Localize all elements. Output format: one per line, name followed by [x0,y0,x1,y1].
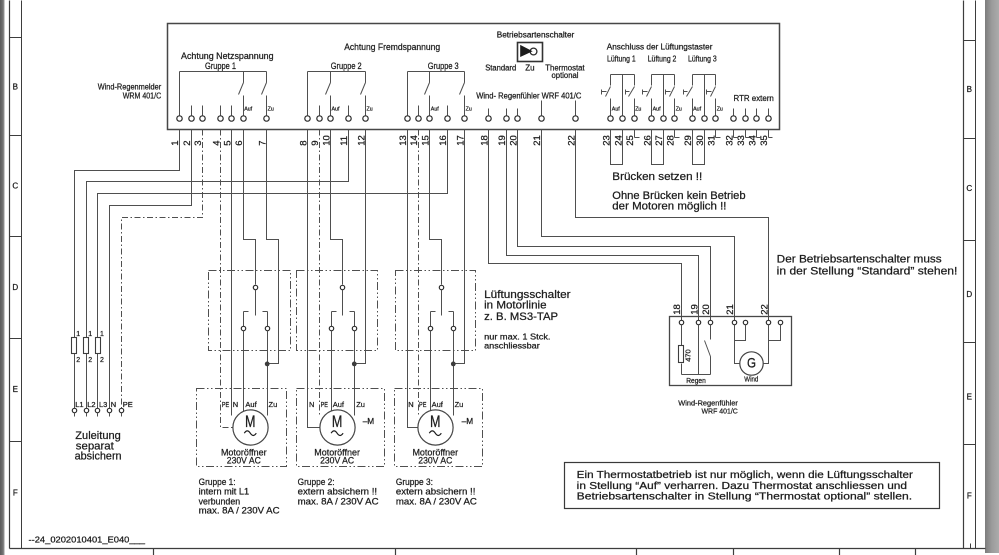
ventilation button group 2 (terminals 26-28) [643,75,675,116]
motor box 1 outline [197,389,287,467]
svg-text:N: N [111,400,116,409]
wire switch 2 Auf contact to motor 2 [331,331,333,412]
ventilation switch S3 pole [439,285,443,315]
svg-text:Zu: Zu [525,63,534,72]
label Auf terminal 10 [332,107,340,113]
svg-text:2: 2 [76,357,80,364]
svg-text:Ein Thermostatbetrieb ist nur: Ein Thermostatbetrieb ist nur möglich, w… [577,470,914,481]
wire terminal 19 to sensor box [507,130,699,321]
wire terminal 3 to PE feeder [122,130,203,409]
svg-text:extern absichern !!: extern absichern !! [298,487,378,497]
note Der Betriebsartenschalter muss in der Stellung Standard stehen [777,253,958,277]
svg-text:20: 20 [701,304,712,315]
note Bruecken setzen [612,171,702,183]
wire terminal 13 N to motor 3 [408,130,418,428]
junction dot group 3 Zu [451,362,456,367]
wire terminal 16 to L3 feeder [98,130,448,409]
svg-text:Wind-Regenmelder: Wind-Regenmelder [98,83,162,92]
motor M3 circle [418,410,453,445]
wire terminal 11 to L2 feeder [87,130,349,409]
svg-text:in Stellung “Auf” verharren. D: in Stellung “Auf” verharren. Dazu Thermo… [577,481,907,492]
svg-text:C: C [966,184,972,193]
stub wires terminals 18-20 [489,109,518,116]
label Wind [744,375,758,384]
note Lueftungsschalter in Motorlinie z.B. MS3-TAP [484,289,571,323]
svg-text:z. B. MS3-TAP: z. B. MS3-TAP [484,311,558,323]
svg-text:Wind: Wind [744,375,758,384]
svg-text:anschliessbar: anschliessbar [484,341,540,351]
svg-text:Gruppe 1: Gruppe 1 [205,61,236,71]
svg-text:230V AC: 230V AC [418,456,452,467]
svg-text:Zu: Zu [455,400,464,409]
svg-text:22: 22 [759,304,770,315]
svg-text:2: 2 [88,357,92,364]
svg-text:Achtung Fremdspannung: Achtung Fremdspannung [344,42,440,52]
wire terminal 6 Auf to switch pole 1 [244,130,256,285]
svg-text:Gruppe 3: Gruppe 3 [428,61,459,71]
label Auf terminal 23 [612,107,620,113]
label Motoroeffner 230V AC motor 2 [314,447,360,466]
svg-text:D: D [12,283,18,292]
mode selector switch icon [518,43,543,62]
ventilation switch S1 contact Zu [263,312,270,331]
label Regen [686,376,706,385]
wire terminal 18 to sensor box [489,130,682,321]
stub wires terminals 32-35 [734,109,769,116]
svg-text:230V AC: 230V AC [227,456,261,467]
svg-text:Lüftung 1: Lüftung 1 [607,54,636,63]
svg-text:der Motoren möglich !!: der Motoren möglich !! [612,201,726,213]
jumper sensor terminal pair right [769,325,781,341]
svg-text:2: 2 [100,357,104,364]
label RTR extern [734,94,774,103]
bridge jumper terminals 26-27 [652,130,664,165]
labels L1 L2 L3 N PE [75,400,133,409]
wire switch 3 Auf contact to motor 3 [430,331,432,412]
wire switch 1 Auf contact to motor 1 [243,331,245,412]
terminal labels motor 2 [309,400,365,409]
svg-text:Zu: Zu [268,107,274,113]
ventilation button group 3 (terminals 29-31) [684,75,716,116]
svg-text:PE: PE [222,400,229,409]
label Zu terminal 28 [676,107,682,113]
wire terminal 9 PE to motor 2 [319,130,321,416]
wire terminal 1 to L1 feeder [75,130,180,409]
wire terminal 20 to sensor box [518,130,711,321]
wire switch 2 Zu contact to motor 2 [354,331,356,416]
svg-text:Lüftung 3: Lüftung 3 [688,54,717,63]
bridge jumper terminals 29-30 [693,130,705,165]
ventilation button group 1 (terminals 23-25) [602,75,635,116]
note Zuleitung separat absichern [75,430,122,463]
wire sensor 22 to generator [764,325,769,364]
motor box 3 outline [395,389,483,467]
junction dot group 1 Zu [265,362,270,367]
svg-text:G: G [747,355,756,371]
note Gruppe 2 extern absichern max 8A 230V AC [298,477,380,506]
svg-text:M: M [430,413,441,431]
label Achtung Netzspannung [181,51,274,61]
svg-text:in Motorlinie: in Motorlinie [484,300,546,312]
svg-text:WRF 401/C: WRF 401/C [702,406,739,415]
svg-text:E: E [967,393,972,402]
label Zu terminal 12 [367,107,373,113]
fuse F3 on L3 [96,331,105,364]
motor M2 circle [320,410,355,445]
svg-text:Auf: Auf [333,400,345,409]
svg-text:Anschluss der Lüftungstaster: Anschluss der Lüftungstaster [607,43,713,52]
rain switch contact [705,325,711,375]
label Zu terminal 17 [466,107,472,113]
ventilation switch S2 pole [340,285,344,315]
note Ohne Bruecken kein Betrieb der Motoren moeglich [612,190,745,212]
svg-text:max. 8A / 230V AC: max. 8A / 230V AC [396,496,478,506]
svg-text:E: E [13,385,18,394]
svg-text:D: D [966,290,972,299]
label Zu terminal 25 [635,107,641,113]
svg-text:PE: PE [321,400,328,409]
ventilation switch S1 pole [253,285,257,315]
svg-text:19: 19 [690,304,701,315]
svg-text:B: B [13,83,18,92]
wire switch 3 Zu contact to motor 3 [453,331,455,416]
open stub terminals 32-35 [734,130,773,138]
svg-text:WRM 401/C: WRM 401/C [123,91,162,100]
label Auf terminal 29 [693,107,701,113]
drawing number label [29,535,146,545]
open stub terminal 28 [675,130,680,138]
wind generator G [740,352,763,375]
svg-text:Auf: Auf [653,107,661,113]
svg-text:1: 1 [88,331,92,338]
svg-text:N: N [408,400,413,409]
stub wires terminals 21-22 [542,101,576,116]
label Anschluss der Lueftungstaster [607,43,713,52]
row letters right [966,85,972,501]
label Auf terminal 15 [431,107,439,113]
svg-text:L2: L2 [87,400,95,409]
sheet frame right strip [985,0,999,553]
svg-text:Zu: Zu [367,107,373,113]
terminal circles 1-35 [177,116,771,121]
label Lueftung 1 [607,54,636,63]
svg-text:M: M [245,413,256,431]
label Achtung Fremdspannung [344,42,440,52]
wire terminal 10 Auf to switch pole 2 [331,130,343,285]
label Zu terminal 7 [268,107,274,113]
terminal labels motor 3 [408,400,463,409]
wire terminal 15 Auf to switch pole 3 [430,130,442,285]
row letters left [12,83,18,498]
motor M1 circle [233,410,268,445]
svg-text:PE: PE [123,400,133,409]
wire sensor terminal 19 down [698,325,700,375]
svg-text:Zu: Zu [635,107,641,113]
sensor WRF 401/C box outline [670,317,792,386]
svg-text:N: N [309,400,314,409]
svg-text:Lüftung 2: Lüftung 2 [648,54,677,63]
svg-text:optional: optional [552,71,579,80]
label Gruppe 1 [205,61,236,71]
rain common rail [682,374,711,376]
svg-text:F: F [967,492,972,501]
feeder terminals L1 L2 L3 N PE [72,408,123,416]
resistor 470 ohm [679,325,684,375]
svg-text:Gruppe 2: Gruppe 2 [331,61,362,71]
svg-text:absichern: absichern [75,451,122,463]
label Zu terminal 31 [717,107,723,113]
open stub terminal 31 [716,130,721,138]
svg-text:intern mit L1: intern mit L1 [199,487,250,497]
label Wind-Regenmelder WRM 401/C [98,83,162,101]
label Motoroeffner 230V AC motor 1 [221,447,267,466]
svg-text:Auf: Auf [245,400,257,409]
svg-text:Standard: Standard [485,63,516,72]
svg-text:Wind- Regenfühler WRF 401/C: Wind- Regenfühler WRF 401/C [476,91,581,100]
svg-text:max. 8A / 230V AC: max. 8A / 230V AC [298,496,380,506]
svg-text:–M: –M [363,416,375,426]
row reference ticks left [10,38,22,442]
wire switch 1 Zu contact to motor 1 [267,331,269,416]
wire terminal 5 N to motor 1 [231,130,233,416]
svg-text:PE: PE [419,400,426,409]
note Gruppe 3 extern absichern max 8A 230V AC [396,477,478,506]
svg-text:23: 23 [602,135,613,146]
label Motoroeffner 230V AC motor 3 [412,447,458,466]
label Betriebsartenschalter [497,31,575,40]
label Zu mode [525,63,534,72]
svg-text:Auf: Auf [432,400,444,409]
ventilation switch S2 contact Zu [350,312,357,331]
ventilation switch S1 contact Auf [241,312,248,331]
jumper sensor terminal pair left [735,325,746,341]
svg-text:Betriebsartenschalter in Stell: Betriebsartenschalter in Stellung “Therm… [577,492,912,503]
note box Ein Thermostatbetrieb [565,463,940,509]
wire terminal 21 to sensor box [542,130,735,321]
ventilation switch box 1 outline [209,271,291,351]
label Lueftung 3 [688,54,717,63]
svg-text:F: F [13,489,18,498]
motor box 2 outline [297,389,385,467]
wire sensor 21 to generator [735,325,740,364]
svg-text:RTR extern: RTR extern [734,94,774,103]
open stub terminal 25 [635,130,640,138]
group 3 supply bracket with switches (terminals 13-17) [408,72,465,116]
svg-text:–M: –M [462,416,474,426]
label Gruppe 2 [331,61,362,71]
svg-text:Auf: Auf [693,107,701,113]
label Wind- Regenfuehler WRF 401/C [476,91,581,100]
label -M motor 3 [462,416,474,426]
svg-text:Auf: Auf [244,107,252,113]
label Lueftung 2 [648,54,677,63]
svg-text:15: 15 [421,135,432,146]
bridge jumper terminals 23-24 [611,130,623,165]
svg-text:Zu: Zu [676,107,682,113]
label -M motor 2 [363,416,375,426]
svg-text:N: N [233,400,238,409]
label Standard [485,63,516,72]
note nur max. 1 Stck. anschliessbar [484,331,550,350]
svg-text:B: B [967,85,972,94]
svg-text:Zu: Zu [466,107,472,113]
fuse F1 on L1 [72,331,81,364]
ventilation switch box 2 outline [297,271,378,351]
row reference ticks right [964,41,976,445]
svg-text:Regen: Regen [686,376,706,385]
ventilation switch S3 contact Zu [449,312,456,331]
svg-text:extern absichern !!: extern absichern !! [396,487,476,497]
controller WRM 401/C main box [168,24,780,130]
title block dividers bottom [154,544,971,555]
svg-text:Auf: Auf [612,107,620,113]
wire terminal 12 Zu bypass group 2 [357,130,366,364]
sheet frame left strip [0,0,5,555]
svg-text:Auf: Auf [431,107,439,113]
label Auf terminal 6 [244,107,252,113]
svg-text:21: 21 [725,304,736,315]
svg-text:--24_0202010401_E040___: --24_0202010401_E040___ [29,535,146,545]
svg-text:Brücken setzen !!: Brücken setzen !! [612,171,702,183]
label Gruppe 3 [428,61,459,71]
label 470 [684,349,693,362]
group 1 supply bracket with switches (terminals 1-7) [180,72,267,116]
svg-text:Der Betriebsartenschalter muss: Der Betriebsartenschalter muss [777,253,943,265]
svg-text:1: 1 [100,331,104,338]
wire terminal 14 PE to motor 3 [418,130,420,416]
svg-text:C: C [12,182,18,191]
svg-text:Gruppe 2:: Gruppe 2: [298,477,335,487]
svg-text:Zu: Zu [269,400,278,409]
svg-text:Zu: Zu [356,400,365,409]
fuse F2 on L2 [84,331,93,364]
svg-text:max. 8A / 230V AC: max. 8A / 230V AC [199,505,281,515]
svg-text:L3: L3 [99,400,107,409]
svg-text:Auf: Auf [332,107,340,113]
label Auf terminal 26 [653,107,661,113]
ventilation switch S2 contact Auf [329,312,336,331]
svg-text:Achtung Netzspannung: Achtung Netzspannung [181,51,274,61]
wire terminal 17 Zu bypass group 3 [456,130,465,364]
svg-text:230V AC: 230V AC [320,456,354,467]
svg-text:Gruppe 1:: Gruppe 1: [199,477,236,487]
label Thermostat optional [545,63,585,80]
terminal numbers 1-35 [170,135,770,146]
svg-text:in der Stellung “Standard” ste: in der Stellung “Standard” stehen! [777,265,958,277]
note Gruppe 1 intern mit L1 verbunden max 8A 230V AC [199,477,281,516]
ventilation switch S3 contact Auf [428,312,435,331]
wire terminal 22 to sensor box [576,130,769,321]
label Wind-Regenfuehler WRF 401/C [678,398,738,415]
svg-text:18: 18 [672,304,683,315]
wire terminal 7 Zu bypass group 1 [267,130,279,364]
svg-text:1: 1 [76,331,80,338]
svg-text:8: 8 [299,141,310,146]
ventilation switch box 3 outline [396,271,476,351]
svg-text:M: M [332,413,343,431]
group 2 supply bracket with switches (terminals 8-12) [308,72,366,116]
sensor terminal circles [679,320,782,324]
sensor terminal numbers 18-22 [672,304,771,315]
svg-text:L1: L1 [75,400,83,409]
svg-text:Betriebsartenschalter: Betriebsartenschalter [497,31,575,40]
wire terminal 4 PE to motor 1 [221,130,233,428]
svg-text:Gruppe 3:: Gruppe 3: [396,477,433,487]
wire terminal 2 to N feeder [110,130,192,409]
junction dot group 2 Zu [352,362,357,367]
terminal labels motor 1 [222,400,277,409]
wire terminal 8 N to motor 2 [308,130,320,428]
svg-text:470: 470 [684,349,693,362]
svg-text:Zu: Zu [717,107,723,113]
